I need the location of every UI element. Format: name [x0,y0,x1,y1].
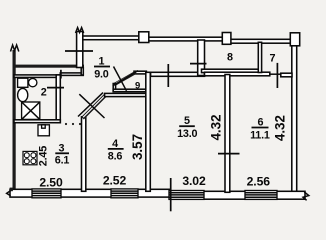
tick cabin top [60,70,62,79]
shower tray [22,102,40,119]
left wall top break [11,45,19,52]
room9 chamfer [115,72,136,84]
top wall west segment [83,36,140,40]
svg-text:4.32: 4.32 [272,115,287,141]
top-left outer wall [13,65,85,68]
window room4 [111,189,138,198]
column box 3 [290,33,299,46]
column box 1 [139,32,149,43]
svg-text:9.0: 9.0 [94,69,109,81]
toilet bowl [18,88,28,101]
room9 bottom wall [113,89,147,92]
room8 bottom wall [202,69,261,72]
svg-text:2.45: 2.45 [38,146,50,166]
balcony mark room5 window [170,178,172,211]
svg-text:2.56: 2.56 [247,174,271,188]
window kitchen [32,189,61,198]
svg-text:9: 9 [135,81,140,92]
kitchen sink [38,125,49,136]
room9 top wall [134,71,146,74]
tick entry wall [65,50,93,52]
door X room9 [113,71,138,86]
top wall east segment [231,39,294,43]
svg-text:2.52: 2.52 [103,174,127,188]
entry vertical wall [77,32,83,68]
svg-text:8.6: 8.6 [108,150,123,162]
window room6 [245,191,277,200]
bottom wall right break [303,192,309,200]
kitchen opening dots [65,123,67,125]
hall step wall horizontal [60,73,83,76]
stove [23,151,37,164]
svg-text:6.1: 6.1 [55,155,70,167]
svg-text:4.32: 4.32 [209,114,224,140]
rooms 5/6 top wall west part [205,72,270,76]
room4 chamfer [83,95,106,118]
toilet cistern [18,78,28,87]
svg-text:2.50: 2.50 [39,175,63,189]
bathroom cabin right wall [56,75,60,123]
hall/room8 wall [198,40,205,76]
room4/5 divider wall [146,72,151,191]
left outer wall [13,50,16,192]
room5/6 divider wall [225,75,230,193]
bottom outer wall [10,189,171,197]
shower tray diagonals [22,102,40,119]
svg-text:2: 2 [41,87,47,99]
svg-text:8: 8 [227,52,233,64]
wash sink circle [29,78,37,86]
kitchen sink tap [42,125,46,128]
hall step wall vertical [81,68,83,75]
bathroom cabin bottom wall [14,120,60,123]
svg-text:13.0: 13.0 [177,128,197,140]
svg-text:11.1: 11.1 [250,129,270,141]
tick corridor door [190,63,207,65]
tick room5/6 wall [218,153,240,155]
tick bathroom door [47,87,64,89]
room4 top wall [105,93,151,96]
tick room5 door [167,64,169,87]
room7 door lintel [270,73,281,75]
room4 left wall [82,117,86,192]
entry wall top break [76,28,84,34]
door X room4 [78,93,103,117]
bottom wall left break [10,188,13,192]
tick room7 door [276,63,278,88]
right outer wall [292,46,297,194]
svg-text:3.57: 3.57 [130,134,145,160]
room8/7 wall [258,42,261,72]
hall / room5 top wall [151,72,205,76]
window room5 [169,191,204,200]
svg-text:7: 7 [269,52,275,64]
rooms 6 top wall east part [281,73,292,77]
bathroom cabin top wall [14,75,60,78]
column box 2 [222,33,231,45]
svg-text:5: 5 [184,115,190,127]
room9 left stub [113,84,115,92]
svg-text:3.02: 3.02 [182,174,206,188]
